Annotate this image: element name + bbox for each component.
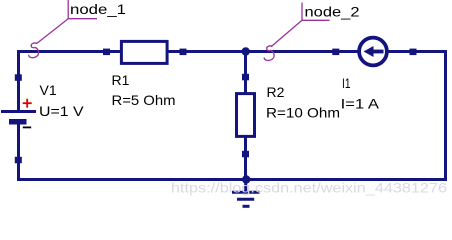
ground bar 3 — [243, 205, 250, 208]
resistor R2 body — [237, 94, 255, 137]
svg-text:https://blog.csdn.net/weixin_4: https://blog.csdn.net/weixin_44381276 — [171, 180, 447, 196]
svg-text:R2: R2 — [267, 84, 285, 100]
V1 pin p — [15, 74, 22, 81]
wire left vertical — [17, 50, 20, 111]
current source I1 circle — [359, 38, 387, 66]
node_1 hook curl — [29, 43, 39, 58]
R1 pin left — [103, 49, 110, 56]
voltage source V1 plate positive — [1, 110, 36, 113]
wire right vertical — [444, 50, 447, 181]
wire R2 vertical branch — [244, 52, 247, 180]
voltage source V1 plate negative — [9, 119, 27, 125]
I1 pin right — [410, 49, 417, 56]
ground bar 1 — [232, 191, 260, 194]
svg-text:I=1 A: I=1 A — [341, 96, 380, 112]
node_2 leader elbow — [271, 3, 330, 47]
svg-text:V1: V1 — [40, 82, 57, 98]
ground stem — [244, 181, 247, 192]
resistor R1 body — [121, 41, 167, 63]
svg-text:U=1 V: U=1 V — [39, 103, 84, 119]
svg-text:R=5 Ohm: R=5 Ohm — [112, 92, 176, 108]
V1 pin n — [15, 157, 22, 164]
R1 pin right — [180, 49, 187, 56]
svg-text:node_2: node_2 — [305, 4, 360, 20]
I1 pin left — [332, 49, 339, 56]
node_1 leader elbow — [37, 0, 98, 44]
R2 pin top — [242, 74, 249, 81]
svg-text:R=10 Ohm: R=10 Ohm — [266, 104, 340, 120]
wire bottom horizontal — [17, 178, 447, 181]
node_2 hook curl — [264, 46, 274, 61]
wire top horizontal — [17, 50, 447, 53]
svg-text:node_1: node_1 — [70, 1, 126, 17]
node junction bottom — [242, 175, 250, 183]
V1 minus sign — [23, 126, 31, 128]
R2 pin bottom — [242, 151, 249, 158]
svg-text:I1: I1 — [342, 75, 351, 91]
V1 plus sign — [23, 99, 32, 108]
svg-text:R1: R1 — [112, 72, 130, 88]
wire left vertical lower — [17, 124, 20, 181]
node junction top — [242, 47, 250, 55]
I1 arrow — [364, 46, 384, 57]
ground bar 2 — [237, 198, 254, 201]
